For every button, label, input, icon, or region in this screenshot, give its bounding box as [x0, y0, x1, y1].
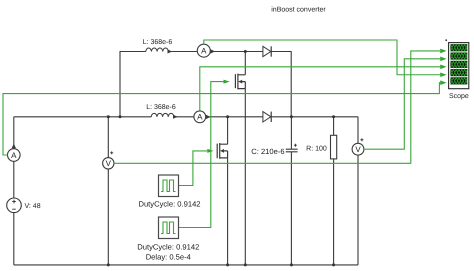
- svg-text:R: 100: R: 100: [306, 146, 327, 153]
- signal wire: A1 to scope input 5: [3, 83, 440, 155]
- diode D2: [263, 112, 271, 122]
- wire: Q1 source to ground: [244, 89, 246, 265]
- mosfet Q2: [217, 143, 227, 159]
- inductor L2: [151, 113, 174, 116]
- signal wire: A3 to scope input 3: [200, 67, 440, 111]
- ammeter A1: [8, 144, 21, 162]
- svg-text:L: 368e-6: L: 368e-6: [146, 104, 176, 111]
- svg-text:L: 368e-6: L: 368e-6: [143, 39, 173, 46]
- junction node dots: [107, 50, 335, 266]
- svg-text:V: 48: V: 48: [25, 203, 41, 210]
- wire: bottom ground bus y=264.9: [14, 264, 358, 266]
- mosfet Q2 body arrow: [220, 149, 224, 153]
- ammeter A3: [194, 111, 211, 123]
- signal wire: V2 to scope input 2: [364, 59, 440, 149]
- wire: Q2 source to ground: [227, 158, 229, 265]
- signal wire: A2 to scope input 4: [204, 40, 440, 75]
- scope anchor dot: [445, 39, 447, 41]
- svg-text:V: V: [355, 145, 361, 154]
- svg-text:A: A: [201, 47, 207, 56]
- svg-text:Delay: 0.5e-4: Delay: 0.5e-4: [146, 253, 191, 262]
- inductor L2 arrow: [173, 115, 178, 119]
- diode D1: [263, 46, 271, 56]
- arrow: scope input 2: [440, 57, 446, 62]
- svg-text:A: A: [11, 151, 17, 160]
- wire: left rail x=13.8: [13, 117, 15, 265]
- ammeter A2: [197, 44, 215, 57]
- signal wire: pulse1 to Q2 gate: [179, 151, 208, 186]
- inductor L1 arrow: [168, 50, 173, 54]
- svg-text:DutyCycle: 0.9142: DutyCycle: 0.9142: [138, 199, 200, 208]
- svg-text:V: V: [106, 159, 112, 168]
- signal wire: pulse2 to Q1 gate: [179, 82, 224, 228]
- svg-text:C: 210e-6: C: 210e-6: [251, 147, 284, 156]
- voltmeter V2: [352, 117, 364, 265]
- pulse generator 1: [159, 175, 179, 197]
- arrow: scope input 5: [440, 80, 446, 85]
- resistor R: [331, 117, 337, 265]
- wire: Q2 drain: [227, 117, 229, 144]
- svg-text:inBoost converter: inBoost converter: [271, 6, 326, 14]
- arrow: Q2 gate: [207, 149, 213, 153]
- scope block: [449, 43, 469, 89]
- svg-text:Scope: Scope: [449, 93, 469, 100]
- voltmeter V1: [103, 151, 114, 169]
- arrow: scope input 3: [440, 65, 446, 70]
- mosfet Q1: [235, 74, 245, 90]
- wire: L1 branch up and phase-1 line y=51.5: [120, 52, 291, 117]
- pulse generator 2: [159, 217, 179, 239]
- voltage source V 48: [7, 198, 22, 213]
- signal wire: V1 to scope input 1: [114, 51, 440, 163]
- svg-text:A: A: [197, 113, 203, 122]
- inductor L1: [146, 48, 169, 51]
- arrow: Q1 gate: [224, 80, 230, 84]
- arrow: scope input 1: [440, 49, 446, 54]
- capacitor C: [286, 117, 298, 265]
- mosfet Q1 body arrow: [238, 80, 242, 84]
- wire: Q1 drain: [244, 52, 246, 75]
- wire: input bus top (y=116.8): [14, 116, 358, 118]
- svg-text:DutyCycle: 0.9142: DutyCycle: 0.9142: [137, 242, 199, 251]
- wire: V1 branch x=108.3: [107, 117, 109, 265]
- arrow: scope input 4: [440, 72, 446, 77]
